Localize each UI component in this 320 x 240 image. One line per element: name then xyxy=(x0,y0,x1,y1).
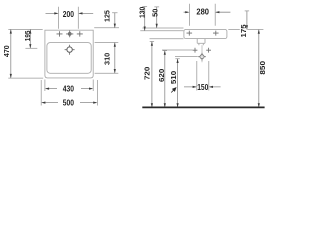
svg-text:310: 310 xyxy=(102,53,111,65)
svg-text:50: 50 xyxy=(150,9,159,17)
svg-text:510: 510 xyxy=(169,71,178,84)
svg-text:620: 620 xyxy=(157,69,166,82)
svg-text:470: 470 xyxy=(2,45,11,57)
svg-text:150: 150 xyxy=(197,83,209,92)
svg-text:720: 720 xyxy=(143,67,152,80)
svg-text:500: 500 xyxy=(63,99,75,108)
svg-text:175: 175 xyxy=(239,24,248,37)
svg-text:200: 200 xyxy=(63,10,75,19)
svg-text:280: 280 xyxy=(196,7,209,16)
svg-text:125: 125 xyxy=(102,10,111,22)
svg-text:195: 195 xyxy=(23,31,32,42)
svg-text:130: 130 xyxy=(137,7,146,18)
svg-text:430: 430 xyxy=(63,84,75,93)
svg-text:850: 850 xyxy=(258,61,267,75)
